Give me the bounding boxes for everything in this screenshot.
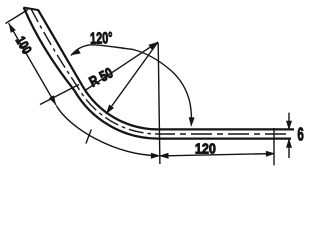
svg-text:6: 6 bbox=[297, 125, 303, 145]
arrow at bend center (R50) bbox=[148, 40, 159, 50]
dimension line 120 bbox=[160, 154, 274, 156]
arrow 6 top bbox=[286, 121, 292, 131]
angle arc 120deg (from inclined leg over top, curling down to horizontal leg) bbox=[71, 45, 191, 126]
arrow 100 bottom bbox=[49, 95, 59, 106]
bar top edge (horizontal leg) bbox=[158, 128, 294, 130]
arrow at centerline arc (R50) bbox=[104, 105, 114, 116]
bar inner edge (inclined leg) bbox=[38, 10, 82, 86]
dimension line 6 (vertical at right end) bbox=[288, 113, 290, 158]
developed dimension arc around bend (continuation of dim lines) bbox=[56, 106, 158, 156]
extension line from bend center down to 120 dim bbox=[158, 43, 160, 164]
dimension line 100 bbox=[9, 23, 56, 105]
extension line top end of 100 dim bbox=[6, 10, 29, 24]
svg-text:120°: 120° bbox=[90, 29, 113, 47]
extension line at bend tangent (bottom of 100 dim) bbox=[40, 85, 79, 105]
arrow 120 right bbox=[266, 151, 276, 157]
tick on developed arc bbox=[86, 130, 91, 144]
bar outer bend arc bbox=[74, 90, 158, 138]
svg-text:120: 120 bbox=[195, 139, 216, 156]
bar bottom edge (horizontal leg) bbox=[158, 137, 291, 139]
radius arrow line (steep, from bend center to centerline arc) bbox=[106, 42, 158, 114]
centerline (dash-dot along bar axis) bbox=[31, 9, 158, 134]
bar end cut (top end of inclined leg) bbox=[23, 8, 38, 11]
arrow angle arc at inclined leg bbox=[69, 48, 80, 58]
arrow angle arc at horizontal leg bbox=[188, 117, 194, 127]
arrow developed arc right end bbox=[151, 153, 161, 159]
extension line right of 120 dim bbox=[273, 128, 275, 165]
bar inner bend arc bbox=[82, 86, 158, 130]
centerline (dash-dot, horizontal leg) bbox=[158, 133, 291, 135]
arrow 120 left bbox=[159, 153, 169, 159]
arrow 6 bottom bbox=[286, 138, 292, 148]
bar outer edge (inclined leg) bbox=[24, 8, 75, 91]
radius line R50 (from bend center to inner edge, under label) bbox=[85, 42, 158, 91]
arrow 100 top bbox=[6, 22, 16, 33]
